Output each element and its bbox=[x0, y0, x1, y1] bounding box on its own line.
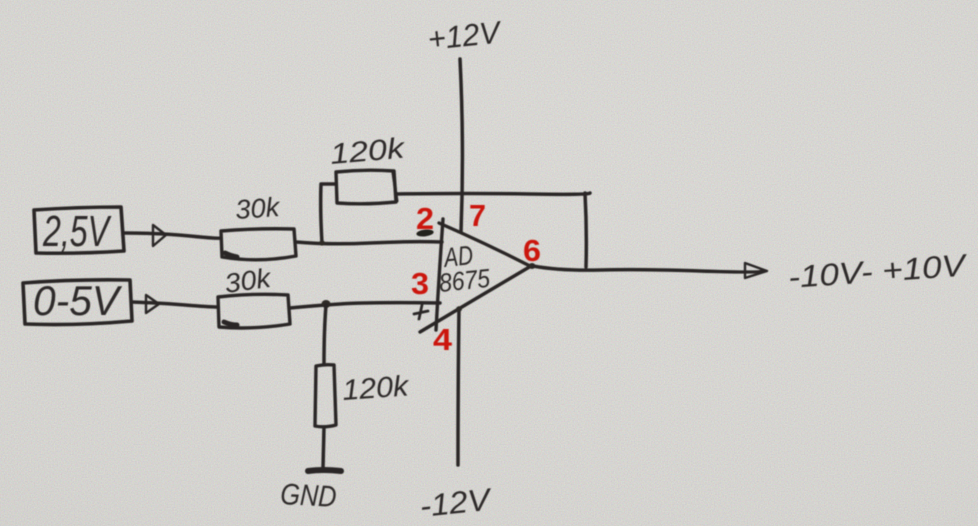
wire R2 left lead bbox=[321, 184, 336, 243]
label 8675 bbox=[437, 263, 491, 298]
resistor R2 120k (feedback) bbox=[336, 170, 397, 204]
svg-text:2: 2 bbox=[416, 201, 434, 236]
resistor R1 30k bbox=[221, 229, 296, 260]
wire R3 to non-inverting input bbox=[290, 303, 440, 308]
op-amp U1 AD8675 bbox=[420, 219, 536, 332]
signal arrow 2 bbox=[146, 295, 159, 313]
wire source1 to R1 bbox=[124, 233, 221, 238]
svg-text:4: 4 bbox=[433, 322, 453, 357]
non-inverting input plus sign bbox=[414, 305, 428, 319]
svg-text:30k: 30k bbox=[234, 192, 281, 225]
output arrow bbox=[745, 263, 767, 278]
label 30k (second) bbox=[223, 263, 274, 299]
svg-text:GND: GND bbox=[280, 478, 338, 514]
source box 0-5V bbox=[23, 280, 132, 325]
inverting input minus sign bbox=[416, 229, 434, 238]
-12V supply wire bbox=[456, 306, 462, 465]
label 2,5V bbox=[42, 207, 111, 256]
label 120k (second) bbox=[341, 370, 411, 407]
+12V supply wire bbox=[460, 59, 462, 232]
ground bbox=[308, 470, 341, 471]
label -12V bbox=[418, 481, 495, 523]
resistor R4 120k (to ground) bbox=[315, 365, 336, 427]
pin 3 bbox=[411, 266, 429, 301]
label AD bbox=[441, 240, 475, 273]
label 120k bbox=[329, 132, 407, 170]
svg-text:3: 3 bbox=[411, 266, 429, 301]
wire source2 to R3 bbox=[132, 302, 218, 307]
pin 7 bbox=[469, 198, 486, 233]
wire R1 to inverting input bbox=[296, 242, 442, 244]
label GND bbox=[280, 478, 338, 514]
label 30k bbox=[234, 192, 281, 225]
svg-text:2,5V: 2,5V bbox=[42, 207, 111, 256]
pin 6 bbox=[523, 233, 541, 268]
pin 4 bbox=[433, 322, 453, 357]
wire R4 to ground bbox=[323, 427, 324, 468]
wire R2 right lead to output node bbox=[396, 193, 590, 267]
label -10V- +10V bbox=[787, 247, 970, 295]
output wire bbox=[533, 266, 762, 272]
svg-text:120k: 120k bbox=[341, 370, 411, 407]
svg-text:120k: 120k bbox=[329, 132, 407, 170]
junction node non-inverting bbox=[322, 300, 331, 308]
source box 2,5V bbox=[34, 207, 124, 253]
svg-text:8675: 8675 bbox=[437, 263, 491, 298]
signal arrow 1 bbox=[153, 225, 166, 246]
pin 2 bbox=[416, 201, 434, 236]
resistor R3 30k bbox=[218, 294, 290, 328]
svg-text:7: 7 bbox=[469, 198, 486, 233]
label +12V bbox=[426, 14, 505, 57]
svg-text:0-5V: 0-5V bbox=[33, 277, 123, 324]
label 0-5V bbox=[33, 277, 123, 324]
wire node to R4 bbox=[324, 305, 326, 364]
junction R1/R2 node bbox=[319, 240, 325, 245]
svg-text:6: 6 bbox=[523, 233, 541, 268]
